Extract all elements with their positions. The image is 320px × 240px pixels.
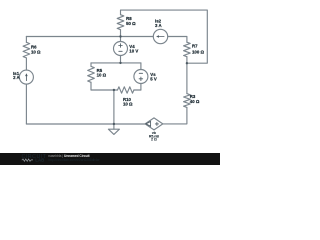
svg-text:10 Ω: 10 Ω bbox=[97, 73, 107, 78]
svg-text:3 A: 3 A bbox=[155, 23, 162, 28]
svg-text:2 Ω: 2 Ω bbox=[151, 138, 157, 142]
svg-text:10 V: 10 V bbox=[129, 48, 138, 53]
svg-text:10 Ω: 10 Ω bbox=[123, 102, 133, 107]
svg-text:2 A: 2 A bbox=[13, 75, 20, 80]
svg-text:100 Ω: 100 Ω bbox=[192, 49, 204, 54]
svg-text:40 Ω: 40 Ω bbox=[190, 99, 200, 104]
svg-text:LAB: LAB bbox=[35, 157, 44, 162]
svg-text:50 Ω: 50 Ω bbox=[126, 21, 136, 26]
svg-text:http://circuitlab.com/c/2art22: http://circuitlab.com/c/2art2288db4w bbox=[48, 158, 100, 162]
svg-text:5 V: 5 V bbox=[150, 77, 157, 82]
svg-text:10 Ω: 10 Ω bbox=[31, 49, 41, 54]
svg-text:R7: R7 bbox=[192, 43, 198, 48]
